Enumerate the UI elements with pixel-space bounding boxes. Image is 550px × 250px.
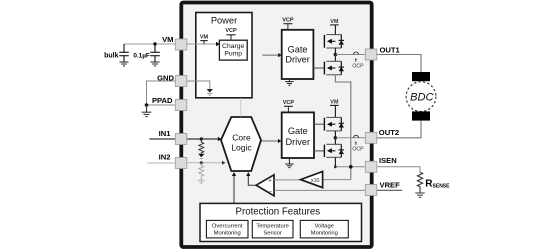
protection features block — [200, 203, 362, 241]
block voltage monitoring — [300, 220, 348, 238]
chip body U1 — [181, 3, 371, 248]
node IN2 pulldown tap — [200, 161, 203, 164]
capacitor C1 0.1uF — [150, 44, 160, 62]
comparator U2 — [256, 175, 274, 196]
wire node to Q4 drain — [334, 138, 336, 145]
VM rail symbol in power block — [200, 34, 209, 44]
svg-text:Gate: Gate — [288, 44, 308, 54]
transistor Q1 high-side half-bridge 1 — [324, 35, 344, 48]
svg-text:bulk: bulk — [104, 53, 118, 60]
wire IN1 external — [150, 138, 176, 140]
power block — [196, 13, 252, 98]
node half-bridge 1 output — [334, 53, 338, 57]
wire Q3 source to node — [334, 131, 336, 138]
charge pump — [219, 40, 247, 60]
wire GND pin into power block — [187, 81, 210, 89]
wire gate driver 2 to Q3 gate — [314, 123, 324, 125]
svg-text:BDC: BDC — [410, 91, 433, 103]
ground IN1 pulldown — [198, 154, 204, 159]
resistor IN2 pulldown — [199, 163, 204, 180]
svg-text:Temperature: Temperature — [256, 223, 289, 229]
wire node to OUT1 pin — [335, 54, 366, 56]
svg-text:OUT2: OUT2 — [379, 128, 399, 137]
svg-text:RSENSE: RSENSE — [425, 178, 450, 189]
svg-text:Driver: Driver — [285, 54, 310, 64]
svg-text:Gate: Gate — [288, 126, 308, 136]
svg-text:Voltage: Voltage — [315, 223, 334, 229]
svg-text:VM: VM — [162, 35, 173, 44]
svg-text:Overcurrent: Overcurrent — [212, 223, 243, 229]
wire VM external — [124, 43, 175, 45]
transistor Q4 low-side half-bridge 2 — [324, 144, 344, 157]
pin OUT2 — [365, 132, 377, 143]
gate driver 2 block — [282, 112, 314, 158]
svg-text:Sensor: Sensor — [263, 231, 281, 237]
transistor Q3 high-side half-bridge 2 — [324, 117, 344, 130]
wire IN1 into core logic — [187, 138, 218, 140]
wire VM pin to charge pump — [187, 43, 216, 45]
OCP sense symbol OUT1 — [354, 52, 359, 62]
resistor RSENSE — [417, 172, 422, 192]
pin GND — [175, 76, 187, 87]
ground gate driver 1 — [285, 79, 293, 85]
svg-text:Power: Power — [211, 16, 237, 26]
wire Q2 source down to sense line — [335, 75, 350, 180]
pin ISEN — [365, 161, 377, 172]
svg-text:−: − — [268, 189, 272, 195]
svg-text:VM: VM — [330, 100, 339, 106]
wire GND external — [147, 81, 176, 105]
node Q4 source / ISEN — [334, 165, 337, 168]
wire VREF to comparator minus — [274, 189, 366, 191]
svg-text:0.1µF: 0.1µF — [133, 53, 150, 60]
svg-text:ISEN: ISEN — [379, 156, 397, 165]
svg-text:Core: Core — [232, 132, 251, 142]
svg-text:Charge: Charge — [222, 43, 245, 50]
core logic block — [221, 117, 261, 171]
svg-text:IN1: IN1 — [159, 129, 172, 138]
op-amp x10 current sense amplifier — [301, 172, 323, 188]
svg-text:OCP: OCP — [352, 147, 364, 153]
ground IN2 pulldown — [198, 180, 205, 184]
svg-text:VREF: VREF — [380, 180, 401, 189]
svg-text:VCP: VCP — [282, 17, 294, 23]
wire gate driver 1 to Q2 gate — [313, 67, 324, 69]
wire OUT2 to motor — [377, 120, 421, 138]
ground gate driver 2 — [285, 158, 293, 168]
svg-text:Driver: Driver — [286, 137, 311, 147]
VCP rail symbol above gate driver 1 — [282, 17, 294, 30]
ground bulk cap — [120, 62, 129, 66]
wire amplifier output to comparator plus — [274, 179, 301, 181]
ground in power block — [207, 89, 213, 95]
capacitor bulk — [119, 44, 129, 62]
wire protection to core logic arrow — [233, 176, 235, 203]
block overcurrent monitoring — [206, 220, 248, 238]
svg-text:x10: x10 — [311, 178, 320, 184]
motor BDC — [406, 72, 436, 121]
VCP rail symbol above charge pump — [225, 28, 237, 40]
wire comparator output to core logic arrow — [248, 176, 256, 185]
transistor Q2 low-side half-bridge 1 — [324, 61, 344, 75]
node half-bridge 2 output — [334, 136, 338, 140]
VM rail above Q3 — [330, 100, 339, 118]
ground RSENSE — [415, 193, 425, 197]
pin OUT1 — [365, 49, 377, 60]
wire ISEN external — [377, 167, 420, 173]
svg-text:GND: GND — [157, 74, 174, 83]
node VM-cap junction — [153, 42, 156, 45]
wire node to OUT2 pin — [335, 137, 366, 139]
wire Q4 source to sense line — [334, 157, 336, 167]
wire gate driver 2 to Q4 gate — [314, 150, 324, 152]
svg-text:VM: VM — [200, 34, 209, 40]
VCP rail symbol above gate driver 2 — [283, 100, 295, 112]
svg-text:+: + — [268, 178, 272, 184]
pin PPAD — [175, 100, 187, 111]
svg-text:OUT1: OUT1 — [380, 46, 401, 55]
node IN1 pulldown tap — [200, 137, 203, 140]
svg-text:IN2: IN2 — [159, 152, 171, 161]
wire VREF external stub — [377, 189, 402, 191]
wire ISEN line — [335, 166, 366, 168]
wire IN2 into core logic — [187, 162, 222, 164]
svg-text:Monitoring: Monitoring — [214, 231, 241, 237]
pin VREF — [365, 185, 377, 196]
ground GND/PPAD — [142, 105, 152, 117]
node GND/PPAD junction — [145, 103, 149, 107]
wire Q1 source to node — [334, 48, 336, 55]
wire IN2 external — [148, 162, 176, 164]
svg-text:Monitoring: Monitoring — [311, 231, 338, 237]
ground 0.1uF cap — [151, 62, 160, 66]
gate driver 1 block — [282, 30, 314, 79]
svg-text:VCP: VCP — [283, 100, 295, 106]
wire node to Q2 drain — [334, 55, 336, 62]
pin VM — [175, 39, 187, 50]
svg-text:PPAD: PPAD — [152, 96, 173, 105]
wire arrow into gate driver 1 — [262, 54, 278, 56]
wire arrow into gate driver 2 — [261, 140, 278, 142]
wire power block to core logic — [240, 98, 242, 116]
svg-text:Protection Features: Protection Features — [236, 207, 321, 218]
node sense tap — [349, 165, 353, 169]
block temperature sensor — [252, 220, 293, 238]
svg-text:Logic: Logic — [231, 142, 252, 152]
svg-text:Pump: Pump — [224, 50, 242, 57]
pin IN2 — [175, 158, 187, 169]
pin IN1 — [175, 134, 187, 145]
svg-text:OCP: OCP — [352, 63, 364, 69]
svg-text:VCP: VCP — [225, 28, 237, 34]
VM rail above Q1 — [330, 19, 339, 34]
OCP sense symbol OUT2 — [354, 135, 359, 145]
wire sense tap to amplifier input — [323, 179, 351, 181]
wire PPAD external — [147, 104, 176, 106]
resistor IN1 pulldown — [199, 139, 204, 154]
svg-text:VM: VM — [330, 19, 339, 25]
wire OUT1 to motor — [377, 55, 421, 73]
